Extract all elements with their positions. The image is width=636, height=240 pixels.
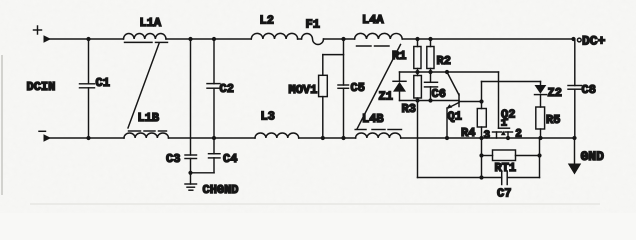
junction R2 top xyxy=(428,37,432,41)
svg-text:C8: C8 xyxy=(582,83,596,97)
resistor R2 xyxy=(427,39,451,72)
svg-text:L4B: L4B xyxy=(362,112,384,126)
wire R3 sense drop xyxy=(417,101,419,178)
svg-text:1: 1 xyxy=(501,118,507,130)
junction C7 row left xyxy=(479,175,483,179)
junction R1 top xyxy=(415,37,419,41)
svg-text:C3: C3 xyxy=(166,152,180,166)
wire top rail xyxy=(50,38,124,40)
inductor L4B xyxy=(355,112,401,138)
junction RT1 right xyxy=(537,153,541,157)
wire node row Z1-R3-C6-Q1 base xyxy=(400,100,460,102)
svg-text:R2: R2 xyxy=(437,54,451,68)
junction R5 bottom rail xyxy=(538,136,542,140)
svg-text:C4: C4 xyxy=(223,152,237,166)
resistor R1 xyxy=(392,39,421,72)
svg-text:Z1: Z1 xyxy=(379,90,393,104)
svg-text:C5: C5 xyxy=(351,81,365,95)
svg-text:CHGND: CHGND xyxy=(203,183,239,197)
svg-text:Z2: Z2 xyxy=(548,86,562,100)
svg-text:R5: R5 xyxy=(546,113,560,127)
junction R4 node xyxy=(479,99,483,103)
inductor L4A xyxy=(355,13,403,46)
svg-text:C2: C2 xyxy=(220,82,234,96)
fuse F1 xyxy=(302,18,324,45)
ground GND xyxy=(568,138,604,175)
terminal - xyxy=(39,131,51,142)
svg-text:3: 3 xyxy=(484,130,491,142)
zener Z2 xyxy=(535,82,562,108)
junction Q2 drain rail xyxy=(506,136,510,140)
inductor L1B xyxy=(124,111,168,138)
svg-text:L1B: L1B xyxy=(138,111,160,125)
svg-text:L4A: L4A xyxy=(362,13,384,27)
wire RT1 right riser xyxy=(539,138,541,178)
capacitor C5 xyxy=(338,39,365,138)
terminal + xyxy=(34,26,52,43)
junction C1 top xyxy=(86,37,90,41)
svg-text:Q1: Q1 xyxy=(448,110,462,124)
junction C3 top xyxy=(188,37,192,41)
zener Z1 xyxy=(379,72,407,104)
mosfet Q2 xyxy=(493,108,516,139)
svg-text:C7: C7 xyxy=(497,187,511,201)
wire RT1 left riser xyxy=(481,138,483,178)
svg-text:C1: C1 xyxy=(96,76,110,90)
svg-text:R1: R1 xyxy=(392,49,406,63)
junction C2 bottom xyxy=(212,136,216,140)
wire C7 row xyxy=(418,177,502,179)
resistor R3 xyxy=(402,72,422,116)
svg-text:R3: R3 xyxy=(402,102,416,116)
wire row A xyxy=(400,71,499,73)
junction DC+ xyxy=(571,37,575,41)
svg-text:RT1: RT1 xyxy=(495,161,517,175)
junction C2 top xyxy=(212,37,216,41)
junction R4 bottom rail xyxy=(479,136,483,140)
varistor MOV1 xyxy=(289,55,344,138)
junction R3 bottom xyxy=(415,98,419,102)
svg-text:MOV1: MOV1 xyxy=(289,83,318,97)
transistor Q1 xyxy=(446,72,462,124)
wire row B to Z2 xyxy=(482,81,541,83)
resistor R5 xyxy=(536,107,561,138)
svg-text:L3: L3 xyxy=(261,110,275,124)
inductor L1A xyxy=(124,16,168,42)
wire Q2 gate drop xyxy=(498,72,500,128)
svg-text:L2: L2 xyxy=(260,14,274,28)
resistor R4 xyxy=(461,109,486,141)
capacitor C1 xyxy=(80,39,110,138)
svg-text:DC+: DC+ xyxy=(582,34,606,49)
svg-text:DCIN: DCIN xyxy=(27,80,56,94)
wire Q1 emitter drop xyxy=(446,108,448,138)
capacitor C3 xyxy=(166,39,197,173)
svg-text:2: 2 xyxy=(515,129,522,141)
junction Q1 emitter rail xyxy=(445,136,449,140)
junction R1 bottom xyxy=(415,70,419,74)
junction C5 top xyxy=(341,37,345,41)
wire L1 coupling diagonal xyxy=(128,44,159,129)
thermistor RT1 xyxy=(482,150,540,175)
wire bottom rail xyxy=(50,137,124,139)
svg-text:C6: C6 xyxy=(432,87,446,101)
svg-text:GND: GND xyxy=(581,149,605,164)
junction C1 bottom xyxy=(86,136,90,140)
capacitor C7 xyxy=(497,171,540,201)
wire L4 coupling diagonal xyxy=(357,45,401,130)
junction GND node xyxy=(572,136,576,140)
junction RT1 left xyxy=(479,153,483,157)
junction C5 bottom xyxy=(341,136,345,140)
ground CHGND chassis xyxy=(185,173,239,197)
wire Q1 collector to R4 node xyxy=(459,101,482,103)
capacitor C8 xyxy=(568,39,596,138)
wire C3-C4 join xyxy=(191,172,215,174)
capacitor C6 xyxy=(425,72,446,101)
wire row B riser xyxy=(481,82,483,109)
junction C3-C4 xyxy=(188,171,192,175)
junction C6 bottom xyxy=(428,98,432,102)
node DC+ terminal xyxy=(577,34,605,49)
junction Q1 collector tap xyxy=(445,70,449,74)
svg-text:L1A: L1A xyxy=(140,16,162,30)
capacitor C2 xyxy=(207,39,234,138)
capacitor C4 xyxy=(209,138,238,173)
inductor L3 xyxy=(255,110,299,139)
junction MOV1 bottom xyxy=(321,136,325,140)
junction R2 bottom xyxy=(428,70,432,74)
svg-text:F1: F1 xyxy=(306,18,320,32)
inductor L2 xyxy=(251,14,297,40)
svg-text:R4: R4 xyxy=(461,126,475,140)
